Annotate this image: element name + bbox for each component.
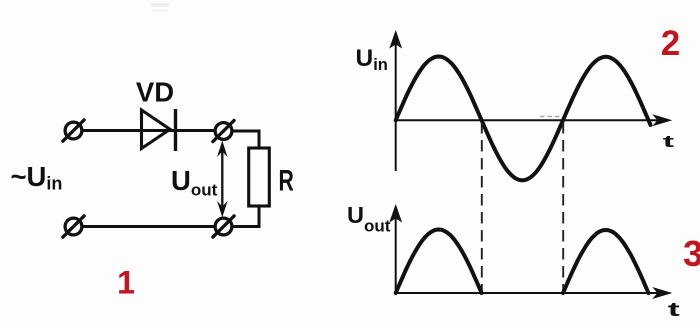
terminal C (bottom-left) (63, 216, 84, 237)
resistor R (249, 148, 270, 206)
wire node B to resistor top (224, 131, 260, 149)
wire bottom (74, 225, 224, 228)
svg-text:t: t (668, 300, 681, 321)
rectified hump 1 (396, 230, 482, 294)
svg-text:1: 1 (117, 265, 135, 301)
graph 2: horizontal axis t (396, 119, 668, 121)
terminal A (top-left) (63, 120, 84, 141)
rectified hump 2 (563, 230, 649, 293)
terminal B (top-right) (213, 120, 234, 141)
graph 3: Uout vertical axis (395, 207, 397, 293)
svg-text:2: 2 (661, 24, 680, 63)
dashed line (first zero crossing) (481, 122, 483, 292)
graph 2: Uin vertical axis (395, 33, 397, 171)
terminal D (bottom-right) (213, 216, 234, 237)
diode VD (142, 109, 176, 151)
dashed line (second zero crossing) (562, 122, 564, 292)
graph 3: horizontal axis t (396, 292, 668, 294)
svg-text:t: t (663, 132, 674, 151)
svg-text:3: 3 (683, 233, 700, 274)
svg-text:VD: VD (136, 77, 174, 108)
wire resistor bottom to node D (224, 205, 260, 227)
sine curve Uin (396, 57, 651, 181)
faint dashed level mark (540, 116, 561, 118)
svg-text:R: R (279, 165, 295, 197)
Uout arrow (double-headed) (217, 141, 227, 218)
wire top (input to diode to node B) (74, 129, 224, 132)
